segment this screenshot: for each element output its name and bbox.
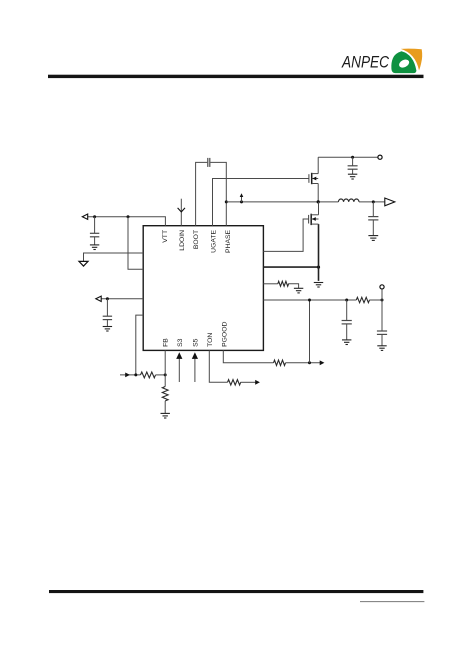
footer rule — [49, 590, 423, 593]
arrow TON (filled right) — [255, 380, 260, 385]
capacitor C3 — [348, 157, 358, 174]
ground C5 — [342, 340, 351, 345]
ground C4 — [368, 236, 378, 241]
wire R3 to arrow — [241, 381, 257, 383]
capacitor C2 — [103, 299, 112, 327]
node dot VTT branch — [127, 215, 130, 218]
wire R1 to FB — [156, 374, 166, 376]
node dot VOUT — [372, 200, 375, 203]
ground C2 — [103, 327, 112, 332]
wire R6 to terminal — [369, 299, 382, 301]
node dot phase-Q — [317, 200, 320, 203]
capacitor C1 — [90, 217, 99, 245]
wire terminal down — [381, 289, 383, 331]
wire Q2 source to ground (bold) — [318, 224, 320, 281]
resistor R2 — [162, 375, 168, 413]
svg-text:VTT: VTT — [162, 230, 169, 243]
wire pullup vertical — [309, 300, 311, 363]
wire boot cap to PHASE — [210, 162, 226, 225]
svg-text:TON: TON — [207, 333, 214, 347]
resistor R1 — [141, 372, 156, 378]
node dot VIN — [351, 156, 354, 159]
node dot terminal — [381, 299, 384, 302]
wire phase node — [226, 201, 338, 203]
node dot pullup top — [308, 299, 311, 302]
ANPEC logo mark — [391, 49, 422, 73]
svg-text:PHASE: PHASE — [225, 229, 232, 253]
arrow FB input (filled right) — [125, 373, 130, 378]
arrow S3 (filled up) — [176, 352, 182, 359]
wire FB pin — [164, 350, 166, 375]
node dot PGOOD pullup — [308, 361, 311, 364]
arrow LDOIN (chevron down) — [178, 208, 185, 212]
wire UGATE — [213, 179, 310, 226]
ground C3 — [348, 174, 357, 179]
wire TON — [209, 350, 227, 382]
svg-text:LDOIN: LDOIN — [179, 230, 186, 251]
arrow S5 (filled up) — [192, 352, 198, 359]
wire L1 to output — [359, 201, 384, 203]
wire VTT to left pin2 — [128, 217, 143, 270]
node dot left pin3 — [106, 297, 109, 300]
capacitor C5 — [342, 300, 352, 340]
wire LGATE — [263, 219, 308, 251]
ground C6 — [377, 346, 386, 351]
wire BOOT — [196, 162, 208, 225]
wire PGOOD — [223, 350, 273, 362]
transistor Q2 — [309, 202, 319, 225]
input arrow VTT (open, left) — [82, 214, 87, 219]
svg-text:S5: S5 — [193, 338, 200, 347]
wire LDOIN input — [180, 199, 182, 226]
input arrow (open, left) — [96, 296, 101, 301]
phase probe arrow — [240, 193, 244, 202]
transistor Q1 — [309, 157, 318, 202]
resistor R6 — [356, 297, 369, 302]
node dot arrow base — [240, 200, 243, 203]
wire R4 to node — [286, 362, 321, 364]
S5 arrow line — [194, 356, 196, 382]
resistor R4 — [274, 360, 286, 365]
wire FB input — [120, 374, 141, 376]
wire PGND (bold) — [263, 266, 318, 268]
wire VIN — [318, 156, 378, 158]
resistor R5 — [278, 281, 289, 286]
wire VDDQ net — [263, 299, 356, 301]
capacitor C6 — [377, 331, 387, 346]
node dot VTT-C1 — [93, 215, 96, 218]
node dot FB — [164, 373, 167, 376]
wire R5 to ground — [288, 284, 298, 288]
svg-text:ANPEC: ANPEC — [341, 53, 389, 72]
output arrow (open right) — [385, 198, 395, 206]
svg-text:UGATE: UGATE — [210, 229, 217, 252]
svg-text:S3: S3 — [177, 338, 184, 347]
svg-text:PGOOD: PGOOD — [221, 322, 228, 347]
ground PGND — [314, 283, 323, 288]
IC U1 — [143, 226, 263, 351]
capacitor C7 (boot) — [208, 158, 210, 167]
resistor R3 — [228, 380, 241, 385]
wire left pin1 — [84, 253, 144, 261]
ground R2 — [161, 413, 170, 418]
ground R5 — [294, 288, 303, 293]
wire VTT input — [88, 217, 166, 226]
header rule — [48, 75, 424, 78]
terminal circle — [380, 285, 384, 289]
node dot C5 — [345, 299, 348, 302]
ground C1 — [90, 245, 99, 250]
inductor L1 — [338, 199, 359, 202]
node dot PGND — [317, 266, 320, 269]
node dot FB-left — [134, 373, 137, 376]
svg-text:FB: FB — [162, 338, 169, 347]
capacitor C4 — [368, 202, 378, 236]
footer note line — [360, 601, 424, 603]
wire left pin3 — [101, 298, 143, 300]
terminal circle VIN — [378, 155, 382, 159]
svg-text:BOOT: BOOT — [193, 230, 200, 249]
gnd flag (open down triangle) — [79, 261, 88, 266]
wire right pin3 — [263, 283, 277, 285]
wire left pin4 to FB node — [136, 315, 143, 375]
S3 arrow line — [178, 356, 180, 382]
arrow PGOOD (filled right) — [320, 360, 325, 365]
node dot PHASE branch — [225, 200, 228, 203]
